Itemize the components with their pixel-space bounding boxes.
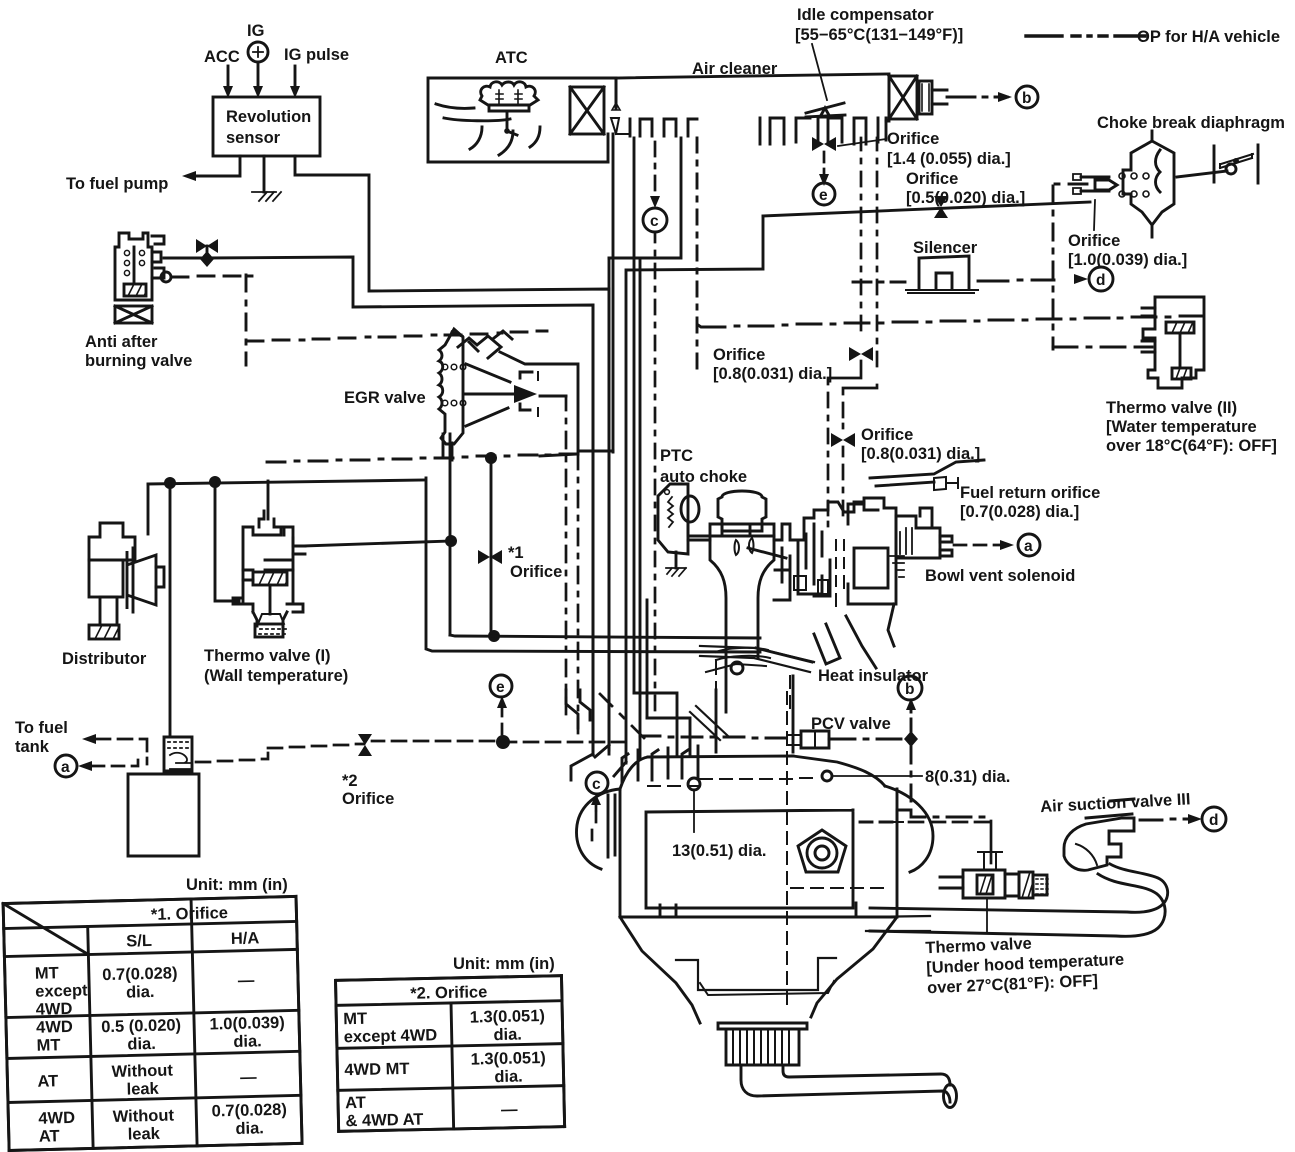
anti after burning valve internals — [124, 250, 129, 255]
svg-text:Fuel return orifice: Fuel return orifice — [960, 484, 1100, 502]
svg-text:AT: AT — [345, 1094, 366, 1112]
wire sensor to PTC auto choke — [295, 156, 609, 750]
engine port circle right — [822, 771, 832, 781]
engine carb mount dashed — [716, 660, 790, 714]
ATC housing box — [428, 78, 616, 162]
anti after burning valve cross base — [115, 306, 152, 323]
air cleaner top edge — [616, 74, 889, 108]
ATC fan scroll — [480, 82, 538, 105]
wire dashed canister to orifice *2 — [196, 744, 364, 762]
carburetor throttle plate — [716, 648, 770, 660]
svg-text:Unit: mm (in): Unit: mm (in) — [453, 955, 555, 973]
choke lever cross bar — [1220, 154, 1253, 168]
PTC link to choke shaft — [688, 522, 710, 540]
wire dash-dot PCV down — [911, 747, 984, 817]
svg-text:*1: *1 — [508, 544, 524, 562]
engine dashed head lines — [648, 778, 812, 786]
svg-text:Bowl vent solenoid: Bowl vent solenoid — [925, 567, 1075, 585]
junction diamond at anti burn wire — [200, 251, 214, 267]
thermo valve II upper pipe — [1142, 308, 1155, 316]
PTC ground — [675, 552, 678, 568]
table 2 orifice *2 — [336, 976, 565, 1132]
orifice 1.4 valve — [812, 137, 824, 151]
svg-text:*2: *2 — [342, 772, 358, 790]
node d2 circle — [1202, 807, 1226, 831]
wire dashed EGR top drop — [577, 455, 580, 733]
svg-text:Orifice: Orifice — [887, 130, 939, 148]
anti after burning valve port circle — [161, 272, 171, 282]
svg-text:[Water temperature: [Water temperature — [1106, 418, 1257, 436]
hood thermo valve hatched plug — [977, 875, 993, 894]
engine ribbed damper — [726, 1029, 799, 1065]
thermo valve II lower pipe — [1142, 341, 1155, 352]
wire dash-dot silencer to d — [978, 280, 1054, 281]
node a2 circle — [55, 755, 77, 777]
svg-text:Distributor: Distributor — [62, 650, 147, 668]
svg-text:S/L: S/L — [126, 932, 152, 951]
ground under revolution sensor — [263, 156, 266, 192]
thermo valve II lower hatched plug — [1172, 368, 1191, 379]
thermo valve I hatched diaphragm — [253, 572, 287, 585]
EGR valve top output wire — [500, 352, 613, 451]
svg-text:—: — — [238, 971, 255, 989]
junction dot distributor line a — [164, 477, 176, 489]
svg-text:Orifice: Orifice — [510, 563, 562, 581]
carbon canister valve — [164, 737, 192, 771]
wire IG pulse to sensor — [294, 66, 297, 88]
svg-text:Silencer: Silencer — [913, 239, 978, 257]
float bowl outline — [848, 498, 896, 604]
carb horn teeth group2 — [760, 118, 886, 144]
anti after burning valve right ports — [152, 236, 164, 278]
svg-text:c: c — [650, 213, 659, 230]
air cleaner right outlet box — [919, 81, 932, 114]
orifice 0.5 valve — [934, 196, 948, 207]
thermo valve I body — [243, 527, 293, 580]
svg-text:d: d — [1209, 812, 1218, 829]
svg-text:dia.: dia. — [126, 983, 155, 1002]
wire to carbon canister — [169, 483, 172, 737]
air suction valve body — [1064, 818, 1134, 870]
EGR valve body — [439, 329, 463, 444]
choke break diaphragm lever — [1177, 171, 1227, 177]
orifice *2 valve — [358, 734, 372, 745]
orifice *1 wire — [490, 458, 493, 635]
thermo valve II body — [1143, 297, 1204, 388]
svg-text:[0.8(0.031) dia.]: [0.8(0.031) dia.] — [861, 445, 980, 463]
air suction valve III label — [1040, 790, 1191, 816]
EGR valve top fitting — [458, 331, 512, 358]
orifice valve at anti after burning valve — [196, 239, 207, 253]
EGR valve output arrow wire — [464, 393, 518, 396]
svg-text:dia.: dia. — [233, 1032, 262, 1051]
engine right side pipe stubs — [860, 810, 909, 822]
svg-text:except: except — [35, 982, 88, 1001]
EGR valve ports — [442, 364, 448, 370]
svg-text:Idle compensator: Idle compensator — [797, 6, 934, 24]
wire ACC to sensor — [227, 66, 230, 88]
float in bowl — [854, 548, 888, 588]
thermo valve I bottom sensor — [255, 624, 283, 637]
distributor cap and body — [89, 523, 135, 560]
thermo valve I top port — [259, 511, 284, 535]
engine to U pipe lines — [866, 916, 930, 931]
svg-text:Revolution: Revolution — [226, 108, 311, 126]
wire center步 step to engine — [634, 693, 690, 754]
orifice 0.8 lower valve — [831, 433, 843, 447]
svg-text:ATC: ATC — [495, 49, 528, 67]
wire center riser A — [609, 138, 681, 258]
idle compensator flap — [806, 103, 844, 117]
wire dash-dot anti burn lower port — [172, 276, 252, 277]
wire thermo I top stub — [267, 481, 270, 519]
svg-text:dia.: dia. — [235, 1119, 264, 1138]
air cleaner bottom edge right — [886, 78, 889, 121]
carburetor venturi left wall — [710, 536, 726, 712]
wire to thermo I lower port — [215, 482, 239, 601]
EGR valve bottom stem wire — [449, 434, 452, 635]
wire dashed orifice 0.8 lower to carb — [842, 447, 845, 515]
engine port circle left — [688, 778, 700, 790]
svg-text:burning valve: burning valve — [85, 352, 192, 370]
svg-text:Without: Without — [113, 1106, 175, 1126]
hood thermo valve pointer — [986, 898, 988, 932]
junction line distributor thermo — [148, 480, 425, 484]
svg-text:4WD MT: 4WD MT — [344, 1060, 409, 1079]
svg-text:PTC: PTC — [660, 447, 693, 465]
svg-text:dia.: dia. — [127, 1035, 156, 1054]
fuel return orifice fitting — [934, 477, 946, 490]
svg-text:0.5 (0.020): 0.5 (0.020) — [101, 1016, 181, 1036]
svg-text:0.7(0.028): 0.7(0.028) — [211, 1101, 287, 1121]
svg-text:1.0(0.039): 1.0(0.039) — [209, 1014, 285, 1034]
carburetor body outline upper right — [774, 502, 878, 540]
carburetor choke plate — [735, 538, 754, 555]
svg-text:MT: MT — [343, 1010, 367, 1028]
svg-text:e: e — [496, 679, 505, 696]
node b2 circle — [898, 676, 922, 700]
anti after burning valve body — [115, 233, 152, 300]
wire dashed to a2 — [92, 760, 138, 766]
engine left bulge — [577, 789, 620, 869]
svg-text:a: a — [61, 759, 70, 776]
svg-text:H/A: H/A — [231, 929, 260, 948]
svg-text:dia.: dia. — [493, 1025, 522, 1044]
svg-text:1.3(0.051): 1.3(0.051) — [470, 1049, 546, 1069]
wire dash-dot below c — [654, 232, 657, 710]
svg-text:(Wall temperature): (Wall temperature) — [204, 667, 348, 685]
hood thermo valve right element — [1019, 872, 1033, 898]
svg-text:ACC: ACC — [204, 48, 240, 66]
svg-text:Orifice: Orifice — [906, 170, 958, 188]
wire dash-dot air cleaner second drop — [876, 138, 879, 366]
wire dashed up to e2 — [501, 706, 504, 734]
node c circle — [643, 208, 667, 232]
svg-text:MT: MT — [36, 1036, 60, 1055]
svg-text:leak: leak — [126, 1080, 159, 1099]
junction dot manifold lower — [488, 630, 500, 642]
float bowl lower taper — [846, 604, 894, 668]
svg-text:a: a — [1024, 538, 1033, 555]
svg-text:over 18°C(64°F): OFF]: over 18°C(64°F): OFF] — [1106, 437, 1277, 455]
air suction U pipe — [870, 864, 1168, 936]
air cleaner crossed filter box right — [889, 76, 917, 119]
svg-text:MT: MT — [35, 964, 59, 983]
junction dot at e2 — [496, 735, 510, 749]
wire dashed EGR arrow drop — [565, 396, 568, 714]
engine oil pan inner — [700, 981, 834, 995]
carburetor choke tower dome — [718, 491, 766, 531]
svg-text:[1.0(0.039) dia.]: [1.0(0.039) dia.] — [1068, 251, 1187, 269]
engine drain pipe — [741, 1065, 950, 1102]
choke break diaphragm ports — [1119, 173, 1125, 179]
anti after burning valve hatched plunger — [124, 284, 146, 296]
engine left vertical bars — [608, 795, 615, 857]
svg-text:0.7(0.028): 0.7(0.028) — [102, 964, 178, 984]
carburetor fuel inlet cluster — [798, 524, 830, 596]
silencer body — [919, 256, 969, 289]
ATC actuator stem — [489, 105, 529, 135]
13 dia pointer — [693, 790, 695, 832]
bowl vent solenoid body — [896, 516, 940, 558]
svg-text:IG pulse: IG pulse — [284, 46, 349, 64]
svg-text:[0.7(0.028) dia.]: [0.7(0.028) dia.] — [960, 503, 1079, 521]
engine intake manifold comb — [622, 746, 698, 782]
choke break diaphragm pod — [1123, 141, 1174, 225]
orifice 1.0 pointer line — [1094, 200, 1095, 230]
node a circle — [1018, 534, 1040, 556]
svg-text:4WD: 4WD — [35, 1000, 72, 1019]
legend OP line — [1026, 34, 1145, 37]
engine rocker cover — [620, 789, 897, 917]
svg-text:Orifice: Orifice — [713, 346, 765, 364]
wire down to hood thermo valve — [990, 821, 993, 863]
distributor shaft — [100, 597, 117, 625]
choke break diaphragm inlet fittings — [1073, 174, 1081, 194]
node e circle — [813, 183, 835, 205]
carburetor choke tower band — [710, 524, 774, 536]
PTC auto choke body — [658, 484, 688, 554]
thermo valve I right port — [293, 538, 305, 554]
wire center riser C pair — [640, 259, 647, 759]
svg-text:Anti after: Anti after — [85, 333, 158, 351]
carburetor choke link rod — [748, 548, 786, 558]
wire dash-dot air cleaner to thermo II upper — [696, 138, 699, 368]
svg-text:Orifice: Orifice — [342, 790, 394, 808]
engine right bulge — [885, 786, 933, 872]
wire thermo I to EGR stem — [304, 541, 451, 546]
wire manifold line lower pair — [450, 635, 760, 638]
svg-text:8(0.31) dia.: 8(0.31) dia. — [925, 768, 1010, 786]
distributor vacuum advance cone — [127, 551, 156, 609]
thermo valve II hatched element — [1166, 322, 1194, 333]
svg-text:except 4WD: except 4WD — [344, 1026, 438, 1046]
heat insulator plate — [700, 646, 814, 672]
hood thermo valve stem — [978, 852, 1002, 870]
wire center riser B solid from air cleaner — [633, 138, 636, 693]
fuel return pipes — [870, 460, 984, 486]
PCV valve body — [801, 731, 829, 748]
svg-text:b: b — [1022, 90, 1031, 107]
svg-text:Thermo valve (II): Thermo valve (II) — [1106, 399, 1237, 417]
svg-text:—: — — [501, 1101, 518, 1119]
node c2 circle — [586, 772, 608, 794]
node d circle — [1089, 267, 1113, 291]
junction diamond PCV — [904, 731, 918, 747]
wire dash-dot silencer left — [853, 281, 905, 284]
wire dash-dot to b — [947, 96, 1007, 99]
svg-text:AT: AT — [39, 1127, 60, 1146]
revolution sensor box — [213, 97, 320, 156]
svg-text:d: d — [1096, 272, 1105, 289]
junction dot EGR stem joint — [445, 535, 457, 547]
svg-text:Choke break diaphragm: Choke break diaphragm — [1097, 114, 1285, 132]
wire dashed to a — [954, 544, 1000, 547]
EGR valve funnel — [466, 364, 532, 426]
hood thermo valve body — [963, 870, 1005, 898]
svg-text:Without: Without — [111, 1061, 173, 1081]
svg-text:tank: tank — [15, 738, 50, 756]
svg-text:Orifice: Orifice — [861, 426, 913, 444]
carb horn teeth group1 — [630, 119, 697, 136]
wire to distributor cap — [147, 484, 150, 534]
svg-text:To fuel pump: To fuel pump — [66, 175, 168, 193]
svg-text:AT: AT — [37, 1072, 58, 1091]
wire jog below orifice 0.8 upper — [828, 361, 861, 526]
wire dash-dot distribution line — [267, 454, 578, 462]
svg-text:4WD: 4WD — [38, 1109, 75, 1128]
svg-text:EGR valve: EGR valve — [344, 389, 426, 407]
air cleaner bottom-left edge — [428, 134, 608, 162]
engine wing nut — [798, 830, 846, 872]
junction dot distributor line b — [209, 476, 221, 488]
orifice 1.4 pointer — [838, 139, 886, 146]
svg-text:e: e — [819, 187, 828, 204]
wire anti burn riser bottom — [592, 305, 595, 754]
svg-text:IG: IG — [247, 22, 264, 40]
carburetor base slant — [756, 624, 840, 664]
carburetor dashed emulsion tubes — [836, 540, 844, 606]
wire jog to orifice 0.8 lower — [843, 385, 877, 428]
fuel tank box — [128, 774, 199, 856]
svg-text:b: b — [905, 681, 914, 698]
wire riser to orifice 0.5 line — [626, 216, 763, 763]
svg-text:leak: leak — [128, 1125, 161, 1144]
engine slant pipes at carb base — [690, 706, 728, 740]
svg-text:c: c — [592, 776, 601, 793]
air cleaner crossed filter box left — [570, 87, 604, 134]
svg-text:dia.: dia. — [494, 1067, 523, 1086]
8 dia pointer — [834, 775, 922, 777]
svg-text:*1. Orifice: *1. Orifice — [151, 904, 228, 924]
wire carb to choke diaphragm via orifice 0.5 — [763, 202, 1090, 216]
junction dot orifice 1 top — [485, 452, 497, 464]
node e2 circle — [490, 675, 512, 697]
air cleaner bottom edge with carb horns — [611, 118, 630, 134]
engine block top edge — [716, 676, 793, 752]
wire dashed orifice *2 to engine — [372, 741, 624, 742]
wire dash-dot PCV to b2 — [829, 738, 901, 741]
wire IG to sensor — [257, 62, 260, 88]
engine dash-dot slant pipe — [600, 694, 644, 738]
wire dashed air cleaner to orifice 0.8 upper — [860, 138, 863, 330]
wire dash-dot up to b2 — [910, 708, 913, 731]
svg-text:Thermo valve (I): Thermo valve (I) — [204, 647, 331, 665]
svg-text:Orifice: Orifice — [1068, 232, 1120, 250]
distributor hatched base — [89, 625, 119, 639]
wire anti burn valve to manifold — [164, 257, 593, 755]
orifice *1 valve — [478, 550, 490, 564]
IG battery plus terminal — [248, 42, 268, 62]
wire dash-dot to c — [654, 142, 657, 202]
wire dash-dot diaphragm to thermo II lower — [1055, 183, 1087, 186]
wire dashed engine to air suction — [909, 821, 989, 824]
svg-text:13(0.51) dia.: 13(0.51) dia. — [672, 842, 766, 860]
outlet stub to b — [932, 90, 947, 104]
svg-text:4WD: 4WD — [36, 1018, 73, 1037]
node b circle — [1016, 86, 1038, 108]
hood thermo valve label — [925, 931, 1125, 998]
svg-text:[55−65°C(131−149°F)]: [55−65°C(131−149°F)] — [795, 26, 963, 44]
orifice 0.8 upper valve — [849, 347, 861, 361]
wire dash-dot to d2 — [1140, 819, 1194, 820]
wire sensor to fuel pump — [196, 156, 240, 176]
idle compensator pointer line — [812, 44, 827, 100]
svg-text:[1.4 (0.055) dia.]: [1.4 (0.055) dia.] — [887, 150, 1011, 168]
svg-text:sensor: sensor — [226, 129, 281, 147]
svg-text:—: — — [240, 1068, 257, 1086]
svg-text:[0.8(0.031) dia.]: [0.8(0.031) dia.] — [713, 365, 832, 383]
svg-text:Unit: mm (in): Unit: mm (in) — [186, 876, 288, 894]
ATC inlet flow curves — [436, 104, 510, 121]
svg-text:1.3(0.051): 1.3(0.051) — [470, 1007, 546, 1027]
wire dashed orifice to e — [823, 152, 826, 175]
engine intake elbow pipes — [566, 690, 590, 728]
svg-text:OP for H/A vehicle: OP for H/A vehicle — [1137, 28, 1280, 46]
carburetor venturi right wall — [758, 536, 774, 658]
table 1 orifice *1 — [3, 896, 302, 1150]
svg-text:*2. Orifice: *2. Orifice — [410, 983, 487, 1003]
engine oil pan — [620, 917, 897, 1023]
wire dashed to fuel tank — [96, 739, 147, 764]
thermo valve I lower body — [233, 570, 303, 626]
svg-text:To fuel: To fuel — [15, 719, 68, 737]
svg-text:Air cleaner: Air cleaner — [692, 60, 778, 78]
wire dash-dot to c2 — [595, 802, 598, 810]
svg-text:& 4WD AT: & 4WD AT — [345, 1111, 423, 1131]
